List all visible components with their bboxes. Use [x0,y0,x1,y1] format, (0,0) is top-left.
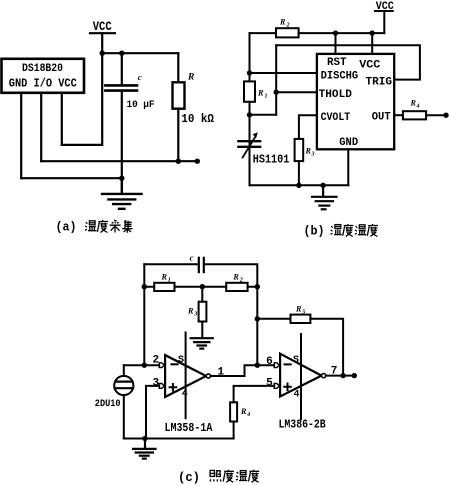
svg-text:S: S [178,355,184,366]
capacitor C1 10uF [105,85,137,90]
svg-text:R: R [295,305,302,314]
photodiode 2DU10 [114,376,133,395]
wire bottom rail (b) [250,184,349,186]
wire I/O line [41,160,197,162]
node main row right [255,284,260,289]
wire output U3 [211,365,275,376]
wire CVOLT line [299,115,317,139]
node RST junction [333,30,338,35]
svg-text:LM386-2B: LM386-2B [279,418,326,432]
svg-text:DISCHG: DISCHG [321,70,359,82]
wire VCC rail [102,52,178,54]
wire photodiode top [123,365,125,376]
wire pin3 [146,386,159,439]
svg-text:R: R [305,147,312,156]
node cap top junction [119,51,124,56]
label R1 (c) [161,273,171,284]
label R4 (c) [240,407,250,418]
node pin2 junction [142,363,147,368]
svg-text:R: R [279,18,286,27]
caption (b) [304,224,379,239]
svg-text:R: R [187,73,194,83]
plus sign U4 [284,384,291,391]
svg-text:R: R [240,407,247,416]
pin marker 3 [159,384,164,389]
ground symbol (c) [133,439,155,459]
output circle U4 [322,374,326,378]
wire photodiode bottom [123,395,125,439]
IC U2 555 [317,54,394,149]
resistor R3 (b) [295,139,304,161]
wire left rail mid [249,102,251,186]
svg-text:R: R [161,273,168,282]
svg-text:VCC: VCC [359,59,380,71]
svg-text:(b): (b) [304,225,325,239]
svg-text:GND I/O VCC: GND I/O VCC [9,78,77,91]
wire TRIG loop [276,45,420,79]
wire R5 right to output [310,319,343,376]
svg-text:3: 3 [193,312,197,318]
pin marker 6 [274,363,279,368]
ground symbol (a) [102,178,142,209]
resistor R3 (c) [199,302,207,322]
wire feedback top left [144,263,198,265]
svg-text:DS18B20: DS18B20 [22,63,63,75]
svg-text:VCC: VCC [93,20,112,34]
wire OUT line [394,114,403,116]
label R2 (c) [232,273,242,284]
svg-text:R: R [232,273,239,282]
wire R3 bottom lead [298,161,300,185]
svg-text:S: S [293,355,299,366]
node resistor / IO junction [176,159,181,164]
VCC supply symbol [90,20,115,53]
caption (a) [56,220,133,235]
svg-text:TRIG: TRIG [366,76,393,88]
wire I/O pin [40,93,42,161]
wire cap top lead [121,53,123,84]
node pin6 junction [255,363,260,368]
ground symbol (b) [312,185,337,209]
svg-text:1: 1 [265,94,268,100]
label R3 (b) [305,147,315,158]
svg-text:4: 4 [246,412,250,418]
node ground junction (c) [142,436,147,441]
resistor R4 (b) [403,111,426,119]
svg-text:5: 5 [302,310,305,316]
node R5 junction [255,316,260,321]
wire feedback left vertical [143,264,145,365]
op-amp U3 LM358-1A [165,333,206,419]
node THOLD junction [274,90,279,95]
svg-text:c: c [190,253,194,263]
svg-text:(a): (a) [56,221,77,235]
svg-text:2DU10: 2DU10 [95,398,121,410]
wire DISCHG line [250,72,318,74]
wire GND pin (b) [347,149,349,185]
output circle U3 [206,374,210,378]
node output endpoint [352,373,357,378]
wire VCC return [62,53,102,145]
wire R3 top lead (c) [201,287,203,302]
node R1 bottom junction [247,112,252,117]
wire cap bottom lead [121,92,123,179]
resistor R2 (b) [276,28,299,37]
resistor R 10k [173,82,185,108]
wire R4 top to pin5 [234,386,275,402]
wire main row segments [144,286,257,288]
svg-text:R: R [410,99,417,108]
wire GND pin [20,93,22,178]
svg-text:LM358-1A: LM358-1A [165,421,213,435]
wire left rail top [249,33,251,81]
svg-text:6: 6 [266,356,273,368]
wire OUT right [426,114,446,116]
svg-text:1: 1 [168,278,171,284]
resistor R1 (b) [244,81,255,101]
svg-text:4: 4 [293,390,299,401]
svg-text:2: 2 [239,278,243,284]
svg-text:3: 3 [152,377,159,389]
node output junction [340,373,345,378]
node main row mid [200,284,205,289]
wire THOLD branch horizontal [250,114,277,116]
label R4 (b) [410,99,420,110]
resistor R2 (c) [226,283,247,291]
VCC supply symbol (b) [375,1,394,33]
wire resistor top lead [177,53,179,82]
resistor R4 (c) [230,402,237,421]
resistor R5 (c) [291,315,311,323]
svg-text:GND: GND [339,137,358,149]
pin marker 5 [274,384,279,389]
node VCC rail junction [100,51,105,56]
svg-text:3: 3 [311,152,315,158]
svg-text:THOLD: THOLD [319,89,353,101]
wire VCC pin [61,93,63,145]
wire pin2 [124,364,159,366]
minus sign U3 [171,363,177,365]
svg-text:OUT: OUT [372,111,391,123]
svg-text:CVOLT: CVOLT [321,112,351,124]
svg-text:4: 4 [182,389,188,400]
node main row left [142,284,147,289]
plus sign U3 [170,384,177,391]
svg-text:R: R [187,307,194,316]
node VCC pin junction [370,30,375,35]
ground symbol R3 (c) [191,338,213,348]
svg-text:HS1101: HS1101 [253,153,290,166]
arrow HS1101 [243,132,258,157]
svg-text:RST: RST [327,57,347,69]
label R3 (c) [187,307,197,318]
wire RST pin [335,33,337,54]
svg-text:5: 5 [266,377,273,389]
node DISCHG junction [247,70,252,75]
op-amp U4 LM386-2B [280,334,321,419]
svg-text:(c): (c) [178,471,200,485]
node ground junction [119,176,124,181]
wire feedback top right [204,264,257,365]
IC U1 DS18B20 [2,59,85,93]
wire bottom rail (c) [124,438,234,440]
label R2 [279,18,290,29]
node OUT endpoint [443,113,448,118]
wire output U4 [326,375,355,377]
svg-text:10 μF: 10 μF [127,99,155,111]
label R1 (b) [257,89,268,100]
wire GND line [21,177,122,179]
svg-text:R: R [257,89,264,98]
pin marker 2 [159,363,164,368]
svg-text:c: c [138,72,142,82]
wire resistor bottom lead [177,109,179,162]
node I/O endpoint [195,159,200,164]
label R5 (c) [295,305,305,316]
resistor R1 (c) [154,283,174,291]
svg-text:10 kΩ: 10 kΩ [181,113,214,126]
wire R4 bottom lead (c) [233,422,235,439]
minus sign U4 [285,363,291,365]
svg-text:2: 2 [286,23,290,29]
node ground junction (b) [320,183,325,188]
wire R5 left [257,318,290,320]
wire top rail (b) [250,32,385,34]
caption (c) [178,470,259,485]
capacitor C (c) [199,258,204,272]
node R3 bottom junction [296,183,301,188]
wire R3 bottom lead (c) [201,322,203,338]
svg-text:4: 4 [416,104,420,110]
wire THOLD line [276,91,317,93]
wire THOLD vertical [275,45,277,115]
wire VCC pin (b) [371,33,373,54]
capacitor HS1101 plates [238,141,260,147]
